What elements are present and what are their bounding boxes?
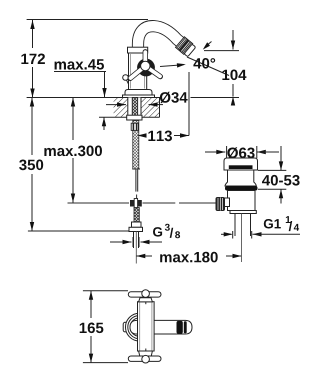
wire max.45 underline leader — [54, 71, 106, 73]
drain lower ring — [230, 211, 256, 214]
node label max.300 — [44, 146, 102, 157]
drain flange — [225, 186, 258, 191]
faucet handle spoke up — [143, 52, 148, 66]
faucet handle spoke down-left — [130, 66, 145, 78]
node label 104 — [222, 70, 246, 81]
wire supply center line — [135, 232, 137, 264]
node label 40-53 — [262, 175, 300, 186]
node counter hatch right — [141, 98, 160, 117]
node label O63 — [227, 147, 254, 158]
wire extension line 40deg horizontal — [204, 50, 239, 52]
node label 165 — [80, 323, 104, 334]
wire tailpipe center line — [241, 214, 243, 263]
front neck bottom — [139, 351, 153, 356]
faucet supply pipe — [133, 232, 135, 249]
wire pull rod tube — [135, 170, 137, 192]
faucet threaded connector — [134, 208, 139, 223]
wire pop-up rod left — [68, 202, 130, 204]
wire hose end cap — [132, 168, 140, 170]
faucet nut large — [129, 227, 143, 231]
front bottom hub — [142, 355, 150, 363]
drain body — [228, 191, 256, 211]
wire leader right O34 — [149, 104, 164, 106]
faucet collar — [128, 47, 148, 53]
front side lever tab — [123, 322, 127, 332]
faucet hose ferrule — [131, 123, 138, 130]
node label 40deg — [193, 58, 215, 69]
faucet aerator band — [176, 37, 197, 57]
drain cap — [224, 158, 258, 170]
wire dimension O63 — [205, 151, 225, 153]
wire pop-up rod right — [143, 202, 176, 204]
drain side port — [225, 198, 230, 207]
wire 40deg outlet axis extension — [187, 57, 229, 76]
node 40deg arc arrow upper — [205, 42, 212, 47]
node label 350 — [19, 160, 43, 171]
faucet base dome — [125, 90, 152, 96]
wire dimension G3/8 right — [141, 241, 163, 243]
faucet handle spoke down-right — [145, 66, 160, 77]
front spout tube — [130, 320, 192, 334]
front top hub — [142, 290, 150, 298]
wire dimension line 165 — [90, 291, 92, 318]
node label G3/8 — [153, 227, 162, 237]
wire dimension line 104 — [232, 30, 234, 50]
wire surface line — [27, 97, 160, 99]
faucet flexible hose — [133, 121, 139, 170]
faucet body column — [129, 53, 147, 90]
node label G1 1/4 — [264, 219, 281, 229]
wire max.45 lower arrow — [103, 117, 105, 130]
front top handle bar — [128, 292, 161, 297]
wire dimension line 350 — [31, 98, 33, 156]
wire dimension line max.300 — [72, 98, 74, 141]
front escutcheon rings — [125, 313, 153, 341]
wire dimension G1 1/4 — [221, 233, 232, 235]
wire counter bottom line — [99, 116, 160, 118]
wire bottom extension line 350 — [28, 230, 129, 232]
faucet spout tube — [138, 26, 187, 52]
wire top extension line 172 — [27, 19, 148, 21]
node counter hatch left — [114, 98, 128, 117]
wire dimension line 172 — [32, 20, 34, 48]
faucet shank hole — [128, 98, 141, 116]
node label 113 — [148, 131, 172, 142]
faucet base plate — [123, 95, 155, 98]
wire pull rod lower — [136, 195, 138, 200]
faucet mounting nut — [127, 115, 142, 120]
wire dimension 40-53 upper — [258, 169, 286, 171]
wire extension line 165 top — [83, 290, 128, 292]
front aerator bands — [177, 321, 183, 334]
node label 172 — [21, 54, 45, 65]
front body column — [138, 302, 155, 351]
faucet handle backplate — [137, 59, 155, 77]
faucet nut small — [132, 222, 142, 227]
faucet side lever — [123, 75, 129, 81]
wire dimension 40-53 lower — [258, 188, 286, 190]
drain plug seal band — [229, 165, 253, 169]
node 40deg arc arrow lower — [160, 65, 184, 67]
wire extension line 165 bottom — [83, 362, 128, 364]
wire dimension line 113 — [138, 135, 147, 137]
drain neck — [225, 170, 256, 186]
wire extension line spout tip vertical — [188, 72, 190, 136]
faucet handle hub — [141, 61, 150, 70]
faucet rod clamp — [130, 200, 134, 207]
node label max.180 — [160, 252, 218, 263]
front bottom handle bar — [128, 356, 161, 361]
wire dimension line max.180 — [136, 255, 152, 257]
faucet threaded shank — [132, 98, 138, 116]
node label max.45 — [55, 59, 104, 69]
drain knurled knob — [216, 197, 226, 211]
node label O34 — [160, 92, 188, 103]
wire dimension G3/8 left — [110, 241, 132, 243]
front neck top — [139, 298, 153, 302]
wire leader left O34 — [106, 104, 126, 106]
drain tailpipe — [234, 214, 236, 237]
